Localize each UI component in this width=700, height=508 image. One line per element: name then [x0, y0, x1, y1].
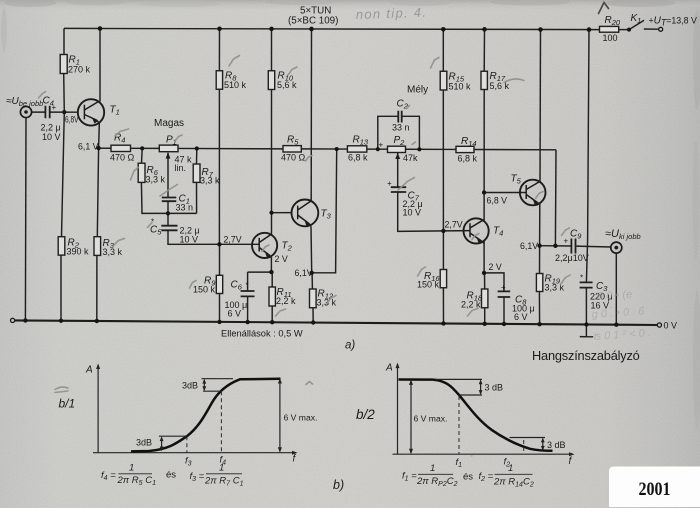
svg-text:lin.: lin.	[175, 163, 187, 173]
svg-text:2,2μ10V: 2,2μ10V	[555, 253, 589, 263]
svg-text:150 k: 150 k	[193, 285, 216, 295]
svg-text:+: +	[501, 283, 506, 292]
svg-text:1: 1	[508, 463, 513, 474]
svg-text:33 n: 33 n	[392, 123, 410, 133]
svg-text:3dB: 3dB	[136, 438, 152, 448]
svg-text:510 k: 510 k	[224, 80, 247, 90]
svg-text:f3 =: f3 =	[190, 471, 205, 483]
svg-text:100: 100	[603, 33, 618, 43]
svg-text:470 Ω: 470 Ω	[281, 153, 306, 163]
svg-text:6,1 V: 6,1 V	[78, 142, 99, 152]
svg-text:2π R5 C1: 2π R5 C1	[117, 475, 157, 487]
svg-text:3,3 k: 3,3 k	[103, 247, 123, 257]
svg-text:a): a)	[345, 340, 355, 352]
svg-text:3dB: 3dB	[182, 381, 198, 391]
svg-text:+: +	[379, 141, 384, 150]
svg-text:b): b)	[333, 478, 344, 492]
svg-text:2π RP2C2: 2π RP2C2	[416, 476, 458, 488]
svg-text:6,1V: 6,1V	[295, 268, 313, 278]
svg-text:2,7V: 2,7V	[224, 235, 242, 245]
svg-text:f2 =: f2 =	[479, 471, 494, 483]
svg-text:5,6 k: 5,6 k	[277, 80, 297, 90]
svg-text:Mély: Mély	[407, 85, 428, 96]
svg-text:6,1V: 6,1V	[520, 241, 538, 251]
svg-text:2π R14C2: 2π R14C2	[493, 477, 534, 489]
svg-text:+: +	[52, 103, 57, 112]
svg-text:és: és	[463, 472, 473, 483]
svg-text:f1 =: f1 =	[402, 471, 417, 483]
svg-text:2,2 μ: 2,2 μ	[41, 123, 61, 133]
svg-text:6 V: 6 V	[228, 309, 242, 319]
svg-text:Magas: Magas	[154, 118, 184, 129]
svg-text:3 dB: 3 dB	[485, 383, 504, 393]
svg-text:10 V: 10 V	[42, 132, 61, 142]
svg-text:1: 1	[219, 463, 224, 474]
svg-text:2,7V: 2,7V	[445, 220, 463, 230]
svg-text:Hangszínszabályzó: Hangszínszabályzó	[532, 348, 640, 363]
svg-text:Ellenállások : 0,5 W: Ellenállások : 0,5 W	[221, 329, 303, 339]
svg-text:0 V: 0 V	[664, 321, 678, 331]
svg-text:6 V max.: 6 V max.	[414, 414, 448, 424]
svg-text:2 V: 2 V	[489, 262, 502, 272]
svg-text:2π R7 C1: 2π R7 C1	[204, 476, 244, 488]
svg-text:3,3 k: 3,3 k	[317, 298, 337, 308]
svg-text:10 V: 10 V	[180, 235, 199, 245]
svg-text:47k: 47k	[403, 153, 418, 163]
svg-text:6,8 k: 6,8 k	[348, 153, 368, 163]
svg-text:6 V max.: 6 V max.	[284, 413, 318, 423]
svg-text:2 V: 2 V	[275, 254, 288, 264]
svg-text:5,6 k: 5,6 k	[490, 81, 510, 91]
svg-text:6,8V: 6,8V	[65, 115, 79, 125]
svg-text:33 n: 33 n	[176, 203, 194, 213]
svg-text:f4 =: f4 =	[101, 470, 116, 482]
svg-text:•: •	[470, 451, 473, 461]
svg-text:3,3 k: 3,3 k	[146, 175, 166, 185]
svg-text:A: A	[85, 365, 93, 376]
svg-text:470 Ω: 470 Ω	[110, 153, 135, 163]
svg-text:+: +	[564, 237, 569, 246]
svg-text:(5×BC 109): (5×BC 109)	[288, 16, 338, 27]
svg-text:A: A	[385, 363, 393, 374]
svg-text:3,3 k: 3,3 k	[200, 176, 220, 186]
svg-text:1: 1	[430, 463, 435, 474]
svg-text:és: és	[166, 470, 176, 481]
svg-text:b/2: b/2	[356, 407, 375, 422]
svg-text:10 V: 10 V	[403, 208, 422, 218]
svg-text:390 k: 390 k	[67, 247, 90, 257]
svg-text:6,8 k: 6,8 k	[458, 154, 478, 164]
svg-text:270 k: 270 k	[68, 65, 91, 75]
svg-text:+: +	[387, 179, 392, 188]
svg-text:*: *	[246, 281, 249, 290]
svg-text:2,2 k: 2,2 k	[276, 296, 296, 306]
svg-text:510 k: 510 k	[449, 82, 472, 92]
svg-text:6,8 V: 6,8 V	[487, 196, 508, 206]
svg-text:150 k: 150 k	[417, 280, 440, 290]
svg-text:*: *	[580, 274, 583, 283]
svg-text:non tip. 4.: non tip. 4.	[356, 5, 428, 22]
svg-text:3 dB: 3 dB	[547, 440, 566, 450]
svg-text:2001: 2001	[639, 479, 671, 500]
svg-text:1: 1	[129, 463, 134, 474]
svg-text:b/1: b/1	[59, 397, 76, 411]
svg-text:6 V: 6 V	[514, 312, 528, 322]
